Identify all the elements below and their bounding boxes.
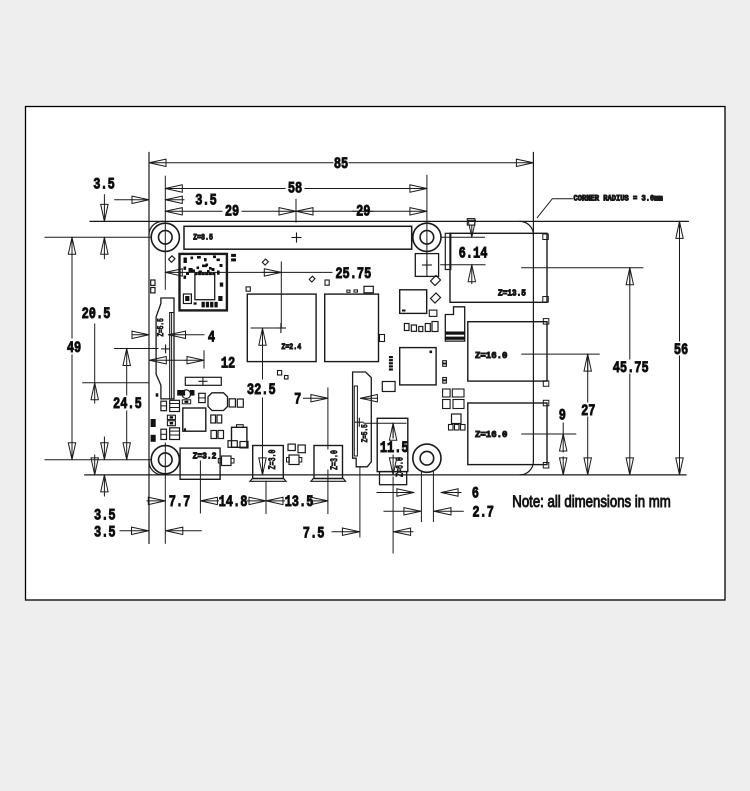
svg-text:58: 58 [288, 180, 302, 198]
svg-text:Z=5.5: Z=5.5 [361, 424, 370, 443]
svg-text:Z=8.5: Z=8.5 [193, 234, 213, 243]
svg-text:56: 56 [674, 341, 688, 359]
svg-text:Z=2.4: Z=2.4 [281, 344, 301, 353]
svg-text:7.5: 7.5 [303, 525, 325, 543]
svg-text:Z=3.0: Z=3.0 [329, 450, 341, 470]
svg-text:Z=5.5: Z=5.5 [157, 318, 166, 337]
svg-text:Z=16.0: Z=16.0 [475, 351, 507, 361]
svg-text:12: 12 [221, 355, 235, 373]
svg-text:CORNER RADIUS = 3.0mm: CORNER RADIUS = 3.0mm [574, 195, 664, 203]
svg-text:45.75: 45.75 [613, 359, 649, 377]
svg-text:9: 9 [559, 407, 566, 425]
svg-text:3.5: 3.5 [195, 192, 217, 210]
svg-text:3.5: 3.5 [94, 507, 116, 525]
svg-text:24.5: 24.5 [113, 396, 142, 414]
svg-text:6: 6 [472, 485, 479, 503]
svg-text:7: 7 [294, 391, 301, 409]
svg-text:13.5: 13.5 [285, 494, 314, 512]
svg-text:85: 85 [334, 156, 348, 174]
svg-text:32.5: 32.5 [247, 382, 276, 400]
svg-text:Z=16.0: Z=16.0 [475, 430, 507, 440]
svg-text:3.5: 3.5 [94, 524, 116, 542]
svg-text:25.75: 25.75 [335, 266, 371, 284]
svg-text:6.14: 6.14 [459, 245, 488, 263]
svg-text:Z=6.0: Z=6.0 [394, 457, 406, 477]
svg-text:2.7: 2.7 [472, 504, 494, 522]
svg-text:29: 29 [356, 203, 370, 221]
svg-text:Note: all dimensions in mm: Note: all dimensions in mm [512, 493, 670, 512]
svg-text:14.8: 14.8 [219, 494, 248, 512]
svg-text:20.5: 20.5 [82, 306, 111, 324]
svg-text:4: 4 [208, 329, 216, 347]
svg-text:Z=13.5: Z=13.5 [498, 288, 526, 299]
svg-text:29: 29 [225, 203, 239, 221]
svg-text:7.7: 7.7 [169, 494, 191, 512]
svg-text:Z=3.2: Z=3.2 [193, 451, 217, 462]
svg-text:11.5: 11.5 [380, 440, 409, 458]
svg-text:3.5: 3.5 [93, 176, 115, 194]
svg-text:Z=3.0: Z=3.0 [267, 449, 279, 469]
svg-text:49: 49 [67, 340, 81, 358]
svg-text:27: 27 [581, 403, 595, 421]
